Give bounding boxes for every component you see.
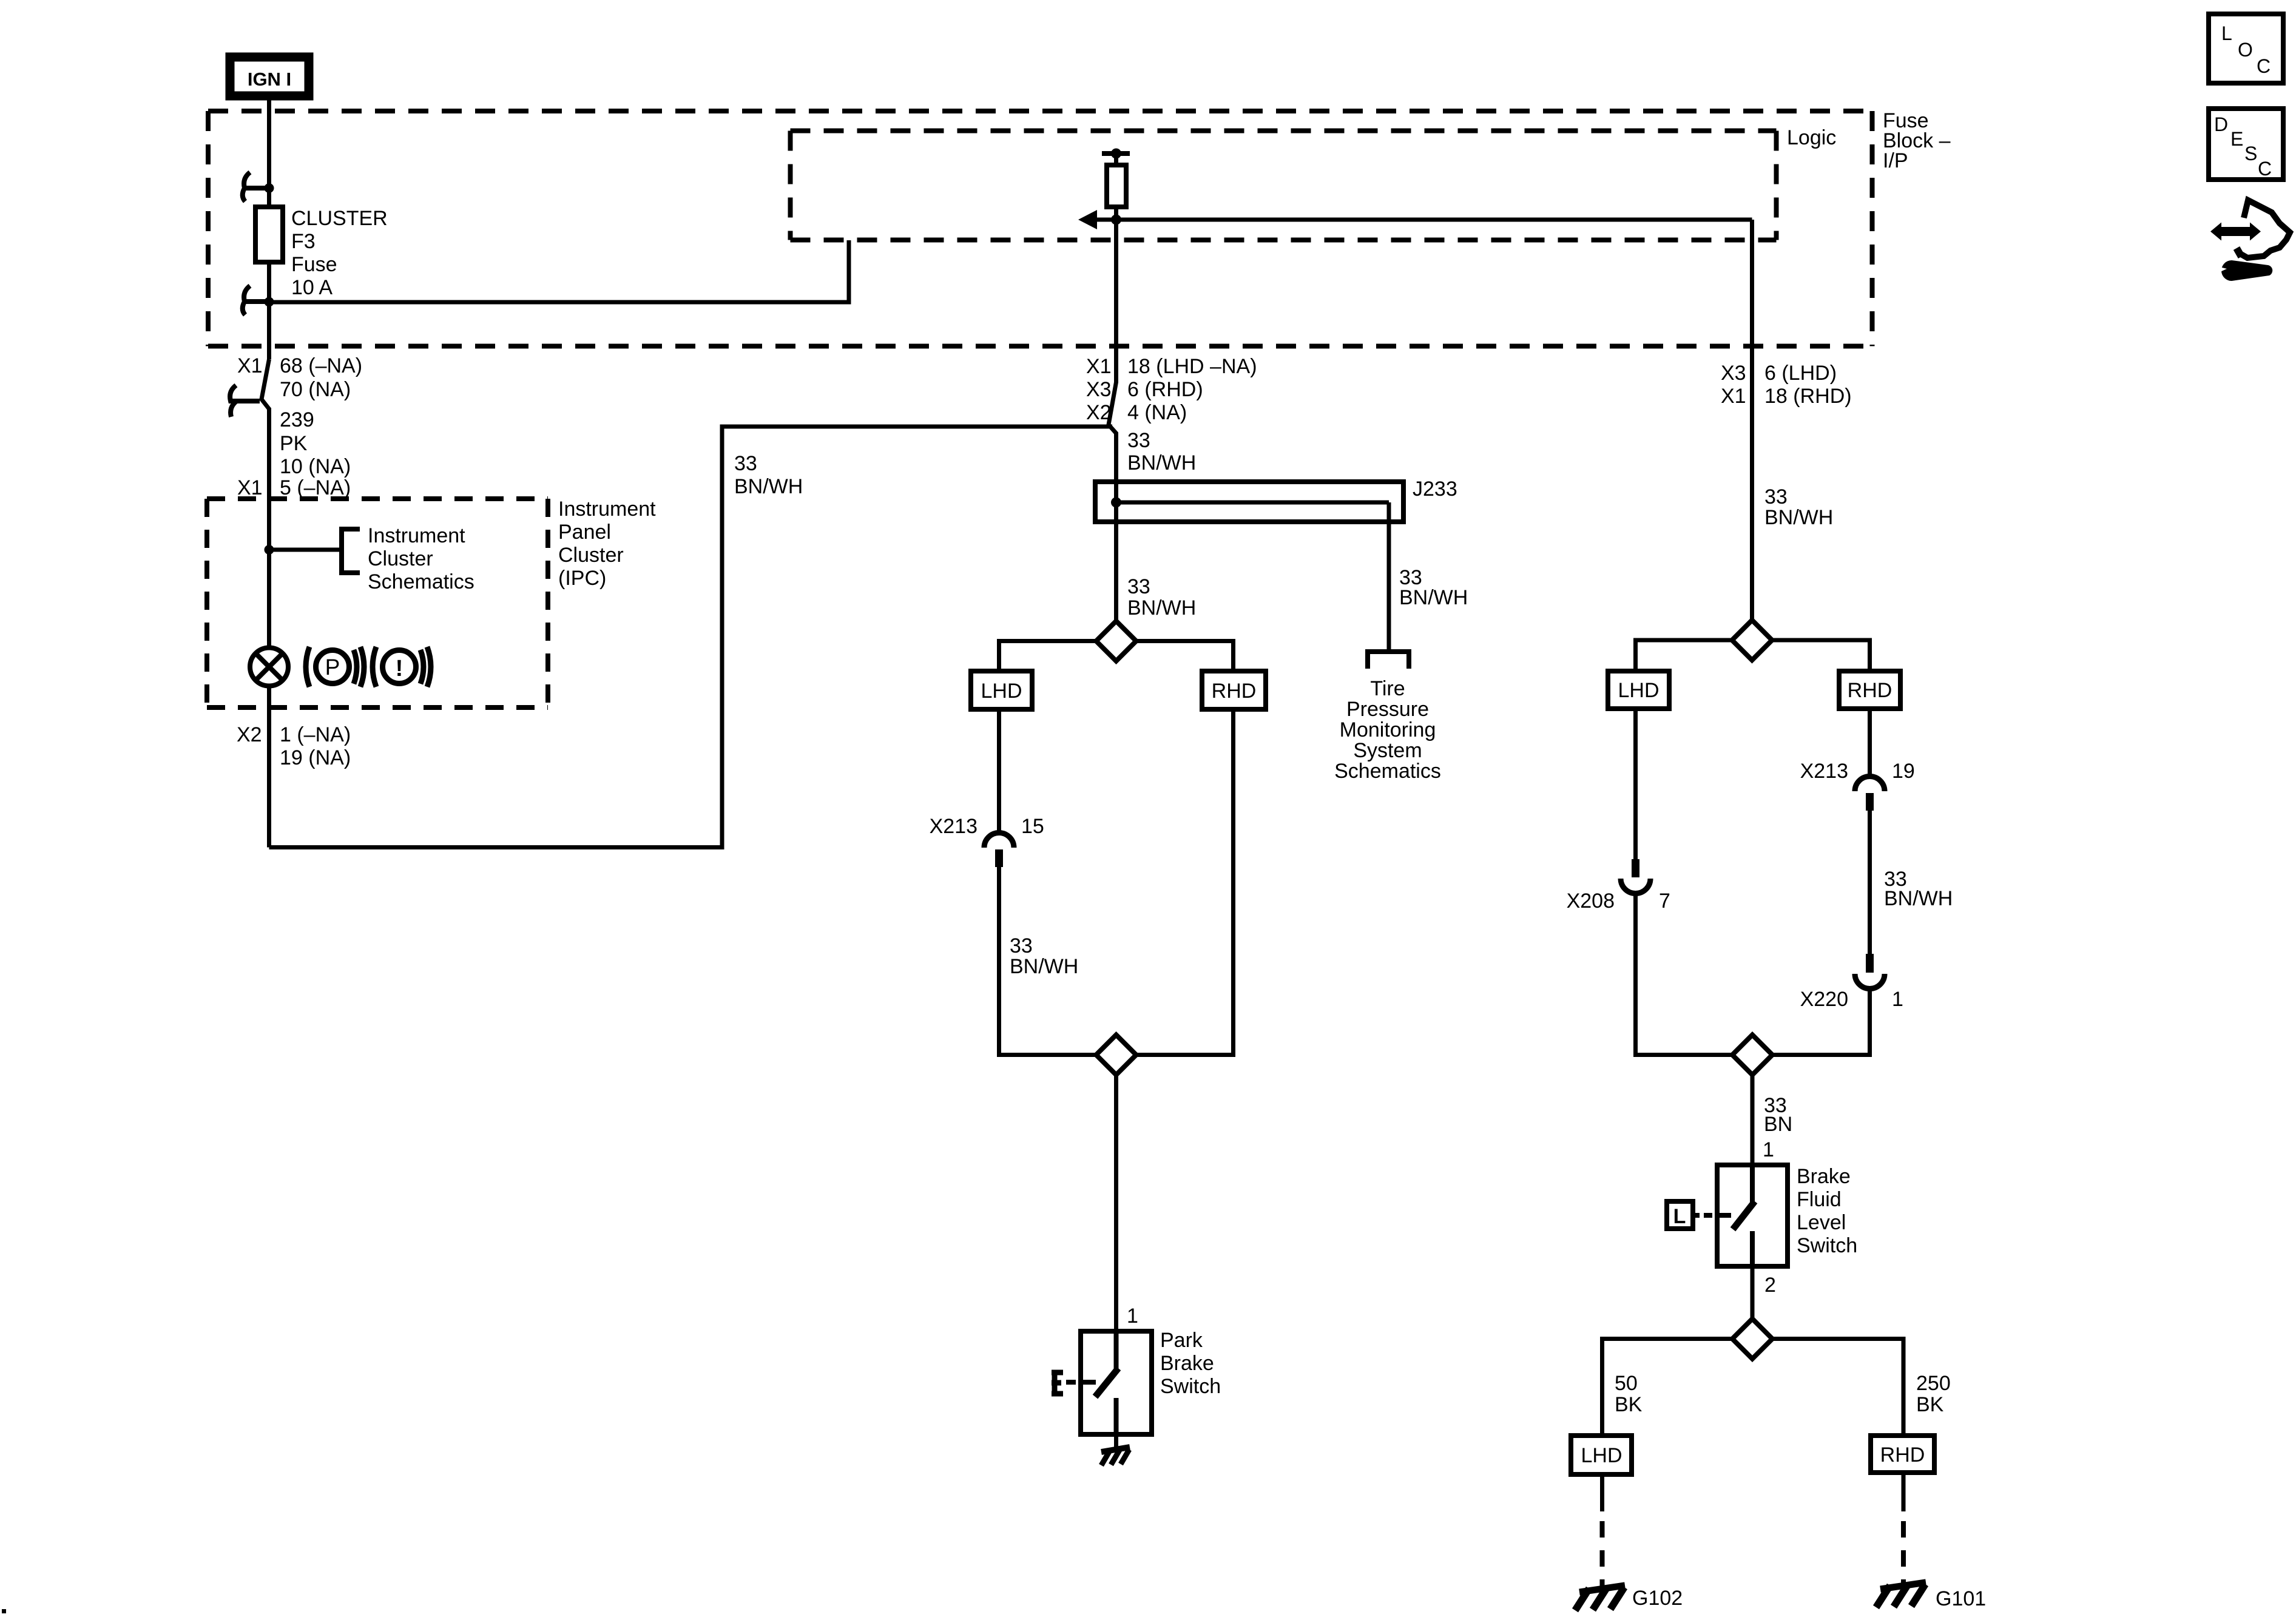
svg-text:Level: Level: [1797, 1211, 1846, 1234]
svg-text:LHD: LHD: [1618, 679, 1659, 702]
wire LHD right to X208: [1633, 709, 1638, 859]
svg-text:(IPC): (IPC): [558, 567, 606, 590]
wire RHD right to X213 19: [1868, 709, 1872, 778]
label X2 1/19: [237, 723, 351, 769]
connector X213 pin 15: [984, 833, 1014, 868]
svg-text:Fuse: Fuse: [291, 253, 337, 276]
svg-text:BN/WH: BN/WH: [734, 475, 803, 498]
svg-text:33: 33: [1127, 429, 1150, 452]
svg-text:X1: X1: [237, 476, 263, 499]
svg-text:Schematics: Schematics: [368, 570, 474, 593]
svg-text:E: E: [2230, 128, 2243, 150]
svg-text:Instrument: Instrument: [558, 498, 656, 521]
wire fuse to lower clip: [267, 262, 271, 359]
connector X220 pin 1: [1855, 954, 1885, 988]
svg-text:RHD: RHD: [1212, 680, 1257, 703]
svg-text:BN: BN: [1764, 1113, 1792, 1136]
indicator lamp: [250, 648, 288, 686]
label Brake Fluid Level Switch: [1797, 1165, 1857, 1257]
option box RHD right: [1839, 671, 1900, 709]
label 10/5 X1: [237, 455, 351, 499]
svg-text:I/P: I/P: [1883, 149, 1908, 172]
svg-text:D: D: [2214, 113, 2228, 135]
svg-text:Logic: Logic: [1787, 126, 1836, 149]
svg-text:L: L: [2221, 22, 2232, 44]
power feed IGN I box: [230, 57, 309, 96]
ground at park brake switch: [1101, 1434, 1130, 1465]
wire J233 branch to TPMS: [1387, 502, 1391, 652]
svg-text:Switch: Switch: [1160, 1375, 1221, 1398]
bracket Instrument Cluster Schematics: [342, 529, 360, 573]
wire center column logic exit: [1109, 220, 1116, 482]
svg-text:19 (NA): 19 (NA): [280, 746, 351, 769]
svg-text:70 (NA): 70 (NA): [280, 378, 351, 401]
svg-text:15: 15: [1021, 815, 1044, 838]
svg-text:S: S: [2244, 143, 2257, 164]
wire into IPC: [267, 408, 271, 647]
wire LHD to X213: [997, 709, 1001, 834]
label X213 15: [930, 815, 1044, 838]
label Instrument Cluster Schematics: [368, 524, 474, 593]
wire right column from arrow: [1750, 220, 1754, 620]
wire switch to ground diamond: [1751, 1266, 1755, 1319]
svg-text:Park: Park: [1160, 1329, 1203, 1352]
wire label 33 BN/WH tire branch: [1399, 566, 1468, 609]
label X208 7: [1567, 890, 1670, 913]
splice diamond right: [1732, 620, 1772, 660]
label Park Brake Switch: [1160, 1329, 1221, 1398]
wire lamp to IPC exit: [267, 686, 271, 848]
option box LHD mid: [971, 671, 1032, 709]
wire label 33 BN/WH right: [1764, 485, 1833, 529]
svg-text:X1: X1: [1721, 385, 1746, 408]
wire diamond to RHD mid: [1136, 641, 1234, 672]
brake fluid level switch S55: [1717, 1165, 1788, 1266]
svg-text:6 (LHD): 6 (LHD): [1764, 362, 1837, 385]
svg-text:G102: G102: [1632, 1587, 1683, 1610]
svg-text:1: 1: [1892, 988, 1903, 1011]
wire label 50 BK: [1615, 1372, 1643, 1416]
splice diamond park: [1096, 1035, 1136, 1075]
svg-text:Brake: Brake: [1160, 1352, 1214, 1375]
svg-text:BN/WH: BN/WH: [1399, 586, 1468, 609]
svg-text:X208: X208: [1567, 890, 1615, 913]
svg-text:Cluster: Cluster: [368, 547, 433, 570]
splice diamond ground: [1732, 1319, 1772, 1359]
option box RHD mid: [1202, 671, 1266, 709]
wire X213 to park diamond: [999, 867, 1096, 1055]
svg-text:4 (NA): 4 (NA): [1127, 401, 1187, 424]
park brake switch S38: [1081, 1331, 1152, 1434]
label X220 1: [1800, 988, 1903, 1011]
wire diamond to LHD right: [1636, 640, 1732, 671]
svg-text:BK: BK: [1615, 1393, 1643, 1416]
svg-text:O: O: [2238, 39, 2253, 61]
svg-text:Schematics: Schematics: [1334, 760, 1441, 783]
fuse clip upper: [243, 172, 274, 201]
svg-text:1: 1: [1763, 1138, 1774, 1161]
node junction to cluster schematics: [265, 545, 342, 555]
wire fuse output to logic box: [269, 240, 849, 302]
wire diamond to switch pin 1: [1751, 1075, 1755, 1165]
wire label 239 PK: [280, 408, 314, 455]
label Tire Pressure Monitoring System Schematics: [1334, 677, 1441, 783]
wire label 33 BN/WH center lower: [1127, 575, 1196, 619]
mechanical link brake fluid: [1693, 1213, 1731, 1218]
svg-text:J233: J233: [1413, 478, 1457, 501]
connector X208 pin 7: [1621, 859, 1650, 894]
ground G101: [1876, 1582, 1926, 1607]
wire center to splice diamond: [1114, 523, 1118, 621]
wire diamond to RHD right: [1772, 640, 1870, 671]
fuse F3 CLUSTER 10A: [255, 207, 283, 262]
svg-text:X3: X3: [1721, 362, 1746, 385]
label X1 X3 X2 center pins: [1086, 355, 1257, 424]
svg-text:1: 1: [1127, 1305, 1138, 1328]
svg-text:BN/WH: BN/WH: [1764, 506, 1833, 529]
wire left column connector jog: [262, 359, 269, 409]
svg-text:33: 33: [1010, 934, 1033, 957]
wire diamond to RHD ground branch: [1772, 1339, 1903, 1436]
svg-text:X220: X220: [1800, 988, 1848, 1011]
svg-text:5 (–NA): 5 (–NA): [280, 476, 351, 499]
svg-text:Pressure: Pressure: [1346, 698, 1429, 721]
connector X213 pin 19: [1855, 777, 1885, 811]
svg-text:CLUSTER: CLUSTER: [291, 207, 388, 230]
svg-text:LHD: LHD: [1581, 1444, 1622, 1467]
svg-text:Monitoring: Monitoring: [1340, 718, 1436, 741]
svg-text:Brake: Brake: [1797, 1165, 1851, 1188]
icon navigation arrow hand wrench: [2210, 200, 2290, 281]
svg-text:10 (NA): 10 (NA): [280, 455, 351, 478]
splice diamond brake fluid: [1732, 1035, 1772, 1075]
svg-text:Cluster: Cluster: [558, 544, 624, 567]
connector clip X1 68/70: [230, 385, 260, 417]
ground G102: [1575, 1585, 1625, 1610]
icon LOC legend: [2209, 14, 2283, 83]
svg-text:6 (RHD): 6 (RHD): [1127, 378, 1203, 401]
label X213 19: [1800, 760, 1915, 783]
svg-text:RHD: RHD: [1848, 679, 1893, 702]
svg-text:X2: X2: [1086, 401, 1112, 424]
wire diamond to LHD ground branch: [1602, 1339, 1733, 1436]
svg-text:P: P: [325, 655, 340, 680]
splice diamond center: [1096, 621, 1136, 661]
svg-text:10 A: 10 A: [291, 276, 333, 299]
svg-text:F3: F3: [291, 230, 316, 253]
wire X220 to brake diamond: [1772, 987, 1870, 1055]
wire LHD to G102: [1600, 1474, 1604, 1587]
terminal to tire pressure schematics: [1368, 652, 1409, 669]
svg-text:!: !: [396, 656, 403, 681]
svg-text:Panel: Panel: [558, 521, 611, 544]
svg-text:33: 33: [734, 452, 757, 475]
page mark: [2, 1609, 6, 1613]
svg-text:BK: BK: [1916, 1393, 1944, 1416]
option box RHD ground: [1871, 1436, 1934, 1473]
indicator brake warning telltale ((!)): [373, 647, 431, 687]
svg-text:IGN I: IGN I: [248, 69, 291, 90]
label Instrument Panel Cluster (IPC): [558, 498, 656, 590]
svg-text:7: 7: [1659, 890, 1670, 913]
label X3 X1 right pins: [1721, 362, 1852, 408]
svg-text:Instrument: Instrument: [368, 524, 465, 547]
wire RHD mid down: [1136, 709, 1234, 1055]
wire diamond to LHD mid: [999, 641, 1096, 672]
wire IGN I to fuse: [267, 100, 271, 209]
option box LHD right: [1608, 671, 1669, 709]
label Fuse Block - I/P: [1883, 109, 1951, 172]
svg-text:X1: X1: [1086, 355, 1112, 378]
svg-text:1 (–NA): 1 (–NA): [280, 723, 351, 746]
icon DESC legend: [2209, 109, 2283, 180]
wire X208 to brake diamond: [1636, 892, 1733, 1055]
svg-text:239: 239: [280, 408, 314, 431]
wire label 33 BN/WH left: [734, 452, 803, 498]
svg-text:18 (RHD): 18 (RHD): [1764, 385, 1852, 408]
level sensor symbol L box: [1667, 1201, 1693, 1229]
svg-text:68 (–NA): 68 (–NA): [280, 354, 362, 377]
option box LHD ground: [1571, 1436, 1632, 1474]
wire label 250 BK: [1916, 1372, 1951, 1416]
svg-text:C: C: [2257, 55, 2271, 77]
svg-text:18 (LHD –NA): 18 (LHD –NA): [1127, 355, 1257, 378]
wire to park brake switch: [1114, 1075, 1118, 1331]
svg-text:LHD: LHD: [981, 680, 1022, 703]
svg-text:X213: X213: [1800, 760, 1848, 783]
fusible element in logic: [1102, 149, 1130, 220]
wire label 33 BN/WH right branch: [1884, 868, 1953, 910]
pedal symbol E park: [1052, 1372, 1063, 1394]
indicator park brake telltale ((P)): [306, 647, 364, 687]
label X1 68/70: [237, 354, 362, 401]
wire label 33 BN/WH mid branch: [1010, 934, 1078, 978]
svg-text:X3: X3: [1086, 378, 1112, 401]
svg-text:X1: X1: [237, 354, 263, 377]
svg-text:2: 2: [1764, 1274, 1776, 1297]
svg-text:X213: X213: [930, 815, 977, 838]
fuse clip lower: [243, 286, 274, 315]
svg-text:L: L: [1673, 1205, 1686, 1228]
wire X213 to X220: [1868, 811, 1872, 954]
svg-text:BN/WH: BN/WH: [1127, 451, 1196, 474]
svg-text:Tire: Tire: [1370, 677, 1405, 700]
wire IPC return to logic: [269, 427, 1113, 848]
wire RHD to G101: [1902, 1473, 1906, 1585]
Logic dashed box: [791, 131, 1777, 240]
svg-text:19: 19: [1892, 760, 1915, 783]
Instrument Panel Cluster dashed box: [207, 499, 548, 707]
svg-text:BN/WH: BN/WH: [1884, 887, 1953, 910]
svg-text:33: 33: [1764, 485, 1788, 508]
splice pack J233: [1095, 482, 1403, 523]
svg-text:BN/WH: BN/WH: [1010, 955, 1078, 978]
svg-text:G101: G101: [1936, 1587, 1986, 1610]
svg-text:C: C: [2258, 158, 2272, 180]
svg-text:System: System: [1353, 739, 1422, 762]
svg-text:50: 50: [1615, 1372, 1638, 1395]
wire label 33 BN/WH center upper: [1127, 429, 1196, 474]
Fuse Block - I/P dashed box: [208, 111, 1872, 346]
svg-text:33: 33: [1127, 575, 1150, 598]
svg-text:X2: X2: [237, 723, 262, 746]
svg-text:Fluid: Fluid: [1797, 1188, 1842, 1211]
label CLUSTER F3 Fuse 10 A: [291, 207, 388, 299]
svg-text:BN/WH: BN/WH: [1127, 596, 1196, 619]
svg-text:RHD: RHD: [1880, 1443, 1925, 1467]
svg-text:Switch: Switch: [1797, 1234, 1857, 1257]
svg-text:PK: PK: [280, 432, 308, 455]
wire label 33 BN: [1764, 1094, 1792, 1136]
mechanical link park: [1066, 1380, 1096, 1385]
svg-text:250: 250: [1916, 1372, 1951, 1395]
arrow feed line with junction: [1078, 210, 1752, 229]
